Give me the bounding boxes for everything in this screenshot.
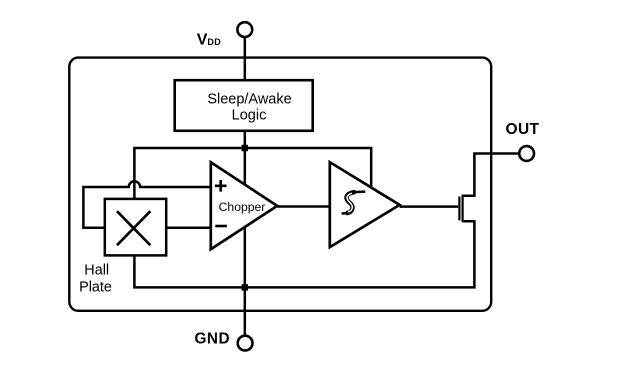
hall plate block bbox=[105, 199, 166, 256]
svg-text:Chopper: Chopper bbox=[219, 200, 266, 214]
wire: hall right terminal to chopper - input bbox=[166, 226, 211, 229]
block Sleep/Awake Logic bbox=[175, 80, 313, 131]
hall plate X mark bbox=[117, 211, 150, 245]
transistor Q1 channel bar bbox=[462, 195, 464, 223]
minus input mark bbox=[215, 225, 227, 228]
op-amp chopper amplifier bbox=[211, 162, 277, 249]
IC boundary (rounded) bbox=[69, 58, 491, 311]
svg-text:GND: GND bbox=[195, 330, 231, 347]
wire: hall left terminal loop to chopper + input (with hop over vertical wire) bbox=[83, 181, 210, 227]
wire: drain to OUT terminal bbox=[463, 154, 520, 196]
junction node at ground bus bbox=[242, 284, 248, 290]
wire: chopper output to schmitt input bbox=[277, 205, 330, 208]
schmitt trigger bbox=[330, 162, 400, 247]
svg-text:DD: DD bbox=[207, 37, 221, 47]
terminal OUT bbox=[519, 146, 534, 161]
terminal GND bbox=[238, 336, 253, 351]
wire: hall bottom to ground bus to MOSFET source bbox=[134, 221, 474, 287]
plus input mark bbox=[215, 180, 227, 192]
wire: vertical supply/ground line through chopper (x=244.8, rail to bus) bbox=[244, 131, 247, 288]
svg-text:Hall: Hall bbox=[84, 263, 109, 279]
svg-text:Logic: Logic bbox=[232, 108, 267, 124]
svg-text:V: V bbox=[197, 32, 208, 49]
junction node at rail bbox=[242, 145, 248, 151]
wire VDD terminal to Sleep/Awake Logic bbox=[244, 36, 247, 81]
terminal VDD bbox=[237, 22, 252, 37]
svg-text:Plate: Plate bbox=[79, 280, 112, 296]
svg-text:Sleep/Awake: Sleep/Awake bbox=[207, 91, 291, 107]
transistor Q1 (output MOSFET) gate bar bbox=[458, 197, 460, 221]
wire: top supply rail bbox=[134, 148, 371, 200]
hysteresis symbol bbox=[355, 190, 366, 193]
svg-text:OUT: OUT bbox=[506, 121, 540, 138]
wire: schmitt output to MOSFET gate bbox=[400, 205, 459, 208]
wire: GND terminal line bbox=[244, 287, 247, 336]
